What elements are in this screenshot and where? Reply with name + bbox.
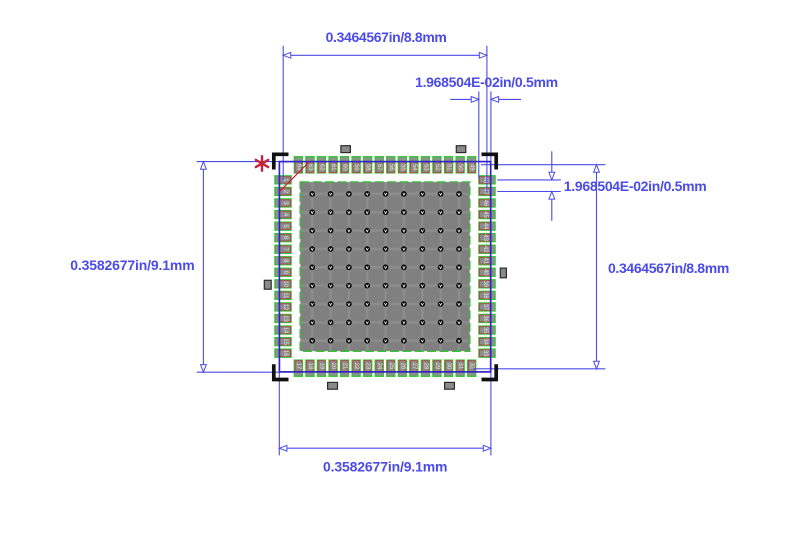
- via 5,4: [364, 264, 370, 270]
- via 7,1: [309, 301, 315, 307]
- svg-text:62: 62: [319, 164, 325, 171]
- pad 33: [479, 349, 495, 357]
- via 8,5: [383, 320, 389, 326]
- svg-text:24: 24: [376, 363, 382, 370]
- via 4,7: [419, 246, 425, 252]
- via 2,8: [438, 209, 444, 215]
- pad 58: [364, 157, 372, 173]
- dim left 9.1mm vertical: [197, 162, 280, 373]
- svg-text:30: 30: [446, 363, 452, 370]
- svg-text:1.968504E-02in/0.5mm: 1.968504E-02in/0.5mm: [415, 74, 558, 90]
- via 9,8: [438, 338, 444, 344]
- pad 16: [275, 349, 291, 357]
- pad 30: [445, 360, 453, 376]
- svg-text:39: 39: [482, 281, 488, 288]
- via 5,5: [383, 264, 389, 270]
- dim top 8.8mm horizontal: [283, 46, 487, 192]
- via 4,2: [328, 246, 334, 252]
- via 9,4: [364, 338, 370, 344]
- via 1,8: [438, 191, 444, 197]
- svg-text:25: 25: [388, 363, 394, 370]
- via 9,3: [346, 338, 352, 344]
- via 8,6: [401, 320, 407, 326]
- svg-text:55: 55: [399, 164, 405, 171]
- via 2,5: [383, 209, 389, 215]
- svg-text:59: 59: [353, 164, 359, 171]
- pad 38: [479, 291, 495, 299]
- via 1,6: [401, 191, 407, 197]
- via 1,9: [456, 191, 462, 197]
- pad 34: [479, 338, 495, 346]
- svg-text:29: 29: [434, 363, 440, 370]
- via 5,6: [401, 264, 407, 270]
- via 7,6: [401, 301, 407, 307]
- via 7,4: [364, 301, 370, 307]
- svg-text:27: 27: [411, 363, 417, 370]
- pad 25: [387, 360, 395, 376]
- svg-text:40: 40: [482, 269, 488, 276]
- pad 47: [479, 187, 495, 195]
- fiducial top-left: [341, 146, 351, 153]
- via 2,4: [364, 209, 370, 215]
- via 5,9: [456, 264, 462, 270]
- svg-text:57: 57: [376, 164, 382, 171]
- via 9,1: [309, 338, 315, 344]
- via 6,2: [328, 283, 334, 289]
- via 3,8: [438, 228, 444, 234]
- pad 9: [275, 268, 291, 276]
- via 6,9: [456, 283, 462, 289]
- pad 63: [306, 157, 314, 173]
- corner bracket bottom-right: [482, 364, 497, 379]
- svg-text:19: 19: [319, 363, 325, 370]
- via 4,5: [383, 246, 389, 252]
- via 3,5: [383, 228, 389, 234]
- svg-text:54: 54: [411, 164, 417, 171]
- via 9,6: [401, 338, 407, 344]
- pad 3: [275, 199, 291, 207]
- svg-text:21: 21: [342, 363, 348, 370]
- fiducial top-right: [456, 146, 466, 153]
- pad 15: [275, 338, 291, 346]
- svg-text:14: 14: [282, 327, 288, 334]
- via 3,9: [456, 228, 462, 234]
- svg-text:44: 44: [482, 223, 488, 230]
- svg-text:37: 37: [482, 304, 488, 311]
- via 6,4: [364, 283, 370, 289]
- via 4,8: [438, 246, 444, 252]
- pad 46: [479, 199, 495, 207]
- pad 2: [275, 187, 291, 195]
- via 1,4: [364, 191, 370, 197]
- fiducial bottom-left: [328, 382, 338, 389]
- svg-text:61: 61: [330, 164, 336, 171]
- via 3,1: [309, 228, 315, 234]
- via 4,3: [346, 246, 352, 252]
- svg-text:0.3582677in/9.1mm: 0.3582677in/9.1mm: [70, 257, 194, 273]
- via 9,5: [383, 338, 389, 344]
- pad 42: [479, 245, 495, 253]
- via 6,5: [383, 283, 389, 289]
- svg-text:50: 50: [457, 164, 463, 171]
- pad 51: [445, 157, 453, 173]
- pad 57: [375, 157, 383, 173]
- pad 64: [294, 157, 302, 173]
- pad 21: [341, 360, 349, 376]
- svg-text:1.968504E-02in/0.5mm: 1.968504E-02in/0.5mm: [564, 178, 707, 194]
- pad 61: [329, 157, 337, 173]
- via 9,9: [456, 338, 462, 344]
- via 2,1: [309, 209, 315, 215]
- pad 36: [479, 314, 495, 322]
- pad 54: [410, 157, 418, 173]
- via 4,1: [309, 246, 315, 252]
- pad 52: [433, 157, 441, 173]
- pad 4: [275, 211, 291, 219]
- via 3,3: [346, 228, 352, 234]
- via 8,4: [364, 320, 370, 326]
- svg-text:34: 34: [482, 338, 488, 345]
- via 2,2: [328, 209, 334, 215]
- via 6,8: [438, 283, 444, 289]
- pad 60: [341, 157, 349, 173]
- pad 55: [398, 157, 406, 173]
- via 7,8: [438, 301, 444, 307]
- pad 43: [479, 234, 495, 242]
- via 5,8: [438, 264, 444, 270]
- pad 59: [352, 157, 360, 173]
- via 4,9: [456, 246, 462, 252]
- via 2,7: [419, 209, 425, 215]
- pad 39: [479, 280, 495, 288]
- svg-text:41: 41: [482, 257, 488, 264]
- pad 24: [375, 360, 383, 376]
- via 6,1: [309, 283, 315, 289]
- via 4,4: [364, 246, 370, 252]
- corner bracket top-right: [482, 154, 497, 169]
- via 5,1: [309, 264, 315, 270]
- svg-text:0.3464567in/8.8mm: 0.3464567in/8.8mm: [326, 29, 447, 45]
- corner bracket top-left: [274, 154, 289, 169]
- dim top 0.5mm pitch: [450, 91, 521, 178]
- pad 6: [275, 234, 291, 242]
- svg-text:36: 36: [482, 315, 488, 322]
- pad 44: [479, 222, 495, 230]
- via 3,7: [419, 228, 425, 234]
- via 8,2: [328, 320, 334, 326]
- via 7,5: [383, 301, 389, 307]
- pad 53: [421, 157, 429, 173]
- via 5,2: [328, 264, 334, 270]
- via 8,3: [346, 320, 352, 326]
- svg-text:12: 12: [282, 304, 288, 311]
- via 9,2: [328, 338, 334, 344]
- svg-text:53: 53: [422, 164, 428, 171]
- via 8,1: [309, 320, 315, 326]
- pad 17: [294, 360, 302, 376]
- svg-text:58: 58: [365, 164, 371, 171]
- svg-text:35: 35: [482, 327, 488, 334]
- pad 49: [468, 157, 476, 173]
- svg-text:46: 46: [482, 200, 488, 207]
- pad 11: [275, 291, 291, 299]
- pad 41: [479, 257, 495, 265]
- via 6,6: [401, 283, 407, 289]
- via 6,3: [346, 283, 352, 289]
- via 6,7: [419, 283, 425, 289]
- svg-text:15: 15: [282, 338, 288, 345]
- via 1,7: [419, 191, 425, 197]
- pad 32: [468, 360, 476, 376]
- via 3,4: [364, 228, 370, 234]
- svg-text:31: 31: [457, 363, 463, 370]
- pad 14: [275, 326, 291, 334]
- pad 45: [479, 211, 495, 219]
- pad 18: [306, 360, 314, 376]
- via 3,6: [401, 228, 407, 234]
- pad 8: [275, 257, 291, 265]
- via 5,3: [346, 264, 352, 270]
- via 9,7: [419, 338, 425, 344]
- svg-text:18: 18: [307, 363, 313, 370]
- pad 13: [275, 314, 291, 322]
- pad 29: [433, 360, 441, 376]
- pad 37: [479, 303, 495, 311]
- dim right 8.8mm vertical: [473, 165, 605, 369]
- svg-text:60: 60: [342, 164, 348, 171]
- via 1,1: [309, 191, 315, 197]
- pad 26: [398, 360, 406, 376]
- pad 1: [275, 176, 291, 184]
- pad 10: [275, 280, 291, 288]
- svg-text:26: 26: [399, 363, 405, 370]
- dim right 0.5mm pitch: [497, 151, 561, 221]
- pin-1 asterisk: [256, 156, 268, 171]
- pad 28: [421, 360, 429, 376]
- pad 48: [479, 176, 495, 184]
- via 5,7: [419, 264, 425, 270]
- fiducial right: [500, 268, 506, 278]
- fiducial bottom-right: [445, 382, 455, 389]
- svg-text:23: 23: [365, 363, 371, 370]
- svg-text:43: 43: [482, 234, 488, 241]
- svg-text:20: 20: [330, 363, 336, 370]
- via 2,3: [346, 209, 352, 215]
- pad 19: [317, 360, 325, 376]
- svg-text:11: 11: [282, 292, 288, 299]
- pad 35: [479, 326, 495, 334]
- corner bracket bottom-left: [274, 364, 289, 379]
- svg-text:52: 52: [434, 164, 440, 171]
- via 7,7: [419, 301, 425, 307]
- pad 22: [352, 360, 360, 376]
- thermal pad EP: [295, 177, 476, 358]
- pad 31: [456, 360, 464, 376]
- pad 27: [410, 360, 418, 376]
- pad 12: [275, 303, 291, 311]
- dim bottom 9.1mm horizontal: [279, 372, 491, 456]
- svg-text:0.3464567in/8.8mm: 0.3464567in/8.8mm: [608, 260, 729, 276]
- svg-text:63: 63: [307, 164, 313, 171]
- svg-text:33: 33: [482, 350, 488, 357]
- via 1,5: [383, 191, 389, 197]
- svg-text:56: 56: [388, 164, 394, 171]
- via 2,9: [456, 209, 462, 215]
- via 1,3: [346, 191, 352, 197]
- via 1,2: [328, 191, 334, 197]
- svg-text:28: 28: [422, 363, 428, 370]
- package body outline 9.1mm: [279, 162, 490, 372]
- pad 56: [387, 157, 395, 173]
- via 8,7: [419, 320, 425, 326]
- pin-1 chamfer line: [280, 161, 310, 191]
- pad 62: [317, 157, 325, 173]
- svg-text:45: 45: [482, 211, 488, 218]
- svg-text:42: 42: [482, 246, 488, 253]
- via 7,9: [456, 301, 462, 307]
- via 8,8: [438, 320, 444, 326]
- svg-text:22: 22: [353, 363, 359, 370]
- via 3,2: [328, 228, 334, 234]
- pad 20: [329, 360, 337, 376]
- svg-text:49: 49: [469, 164, 475, 171]
- via 4,6: [401, 246, 407, 252]
- via 2,6: [401, 209, 407, 215]
- pad 50: [456, 157, 464, 173]
- via 7,2: [328, 301, 334, 307]
- via 8,9: [456, 320, 462, 326]
- fiducial left: [264, 280, 271, 289]
- pad 23: [364, 360, 372, 376]
- pad 40: [479, 268, 495, 276]
- svg-text:16: 16: [282, 350, 288, 357]
- svg-text:17: 17: [295, 363, 301, 370]
- svg-text:0.3582677in/9.1mm: 0.3582677in/9.1mm: [323, 459, 447, 475]
- svg-text:10: 10: [282, 281, 288, 288]
- pad 7: [275, 245, 291, 253]
- pad 5: [275, 222, 291, 230]
- svg-text:51: 51: [446, 164, 452, 171]
- svg-text:38: 38: [482, 292, 488, 299]
- svg-text:13: 13: [282, 315, 288, 322]
- via 7,3: [346, 301, 352, 307]
